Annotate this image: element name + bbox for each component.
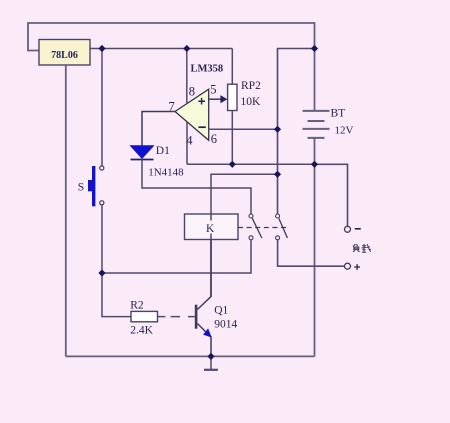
svg-text:D1: D1 xyxy=(156,145,170,157)
dashed linkage line xyxy=(238,227,287,229)
pin 7 wire (output) xyxy=(142,112,175,146)
wire: battery column xyxy=(314,49,316,111)
wire: top supply wire from battery + to 78L06 input xyxy=(28,23,315,51)
svg-text:78L06: 78L06 xyxy=(51,50,78,61)
wire: R2 to Q1 base (with gaps) xyxy=(158,316,195,318)
node: pin6/contact column xyxy=(274,126,281,133)
label plus input xyxy=(198,98,205,105)
node: line A / battery column xyxy=(311,161,318,168)
resistor R2 xyxy=(131,311,158,321)
node: line B / contact column xyxy=(274,171,281,178)
svg-text:2.4K: 2.4K xyxy=(130,324,153,336)
label plus sign xyxy=(354,264,360,270)
label minus input xyxy=(198,126,205,128)
node: rail/pin8 xyxy=(183,45,190,52)
svg-text:RP2: RP2 xyxy=(241,80,261,92)
svg-text:S: S xyxy=(78,182,84,194)
wire: line A (op-amp pin4 / RP2 bottom / battery mid rail to minus branch) xyxy=(187,163,348,165)
svg-text:7: 7 xyxy=(169,99,175,113)
label minus sign xyxy=(355,228,361,230)
label K xyxy=(204,221,216,235)
ground symbol xyxy=(204,356,218,369)
op-amp U1 LM358 xyxy=(175,89,209,140)
label load (Chinese fu-zai) xyxy=(353,244,371,252)
wire: D1 cathode down and right to left relay contact top xyxy=(142,160,251,214)
node: line A / RP2 bottom xyxy=(229,161,236,168)
wire: plus terminal to right relay contact bottom xyxy=(278,240,345,266)
pin 5 wire to RP2 wiper xyxy=(209,98,221,100)
svg-text:6: 6 xyxy=(211,132,217,146)
pin 8 xyxy=(186,49,188,105)
svg-text:5: 5 xyxy=(210,83,216,97)
svg-text:9014: 9014 xyxy=(214,318,237,330)
wire: 78L06 ground pin left border down to ground rail xyxy=(65,65,67,356)
terminal minus xyxy=(345,226,351,232)
relay contact 1 (left) xyxy=(249,214,262,240)
wire: switch bottom to junction xyxy=(101,205,103,273)
battery BT xyxy=(303,111,330,138)
node: rail/switch xyxy=(98,45,105,52)
transistor Q1 xyxy=(195,240,212,357)
wire: battery minus down to ground rail corner xyxy=(314,138,316,357)
pin 4 xyxy=(186,122,188,164)
potentiometer RP2 xyxy=(220,49,237,165)
terminal plus xyxy=(345,263,351,269)
svg-text:LM358: LM358 xyxy=(191,64,224,75)
svg-text:4: 4 xyxy=(186,134,193,148)
node: emitter/ground rail xyxy=(207,353,214,360)
wire: branch to minus terminal xyxy=(315,164,348,226)
wire: junction down to R2 xyxy=(102,273,131,317)
wire: +6V rail from 78L06 output to RP2 top xyxy=(90,48,232,50)
svg-text:Q1: Q1 xyxy=(214,305,228,317)
svg-text:12V: 12V xyxy=(335,125,354,137)
svg-text:BT: BT xyxy=(331,108,346,120)
wire: rail segment from battery junction down to relay contact column xyxy=(278,49,315,215)
wire: left contact bottom to switch column xyxy=(102,240,251,273)
node: switch/R2/contact-return xyxy=(98,269,105,276)
svg-text:10K: 10K xyxy=(241,96,262,108)
wire: line B relay coil through K down to Q1 collector xyxy=(211,174,278,296)
svg-text:1N4148: 1N4148 xyxy=(148,167,184,179)
regulator U 78L06 xyxy=(39,40,90,66)
switch S xyxy=(88,166,104,206)
relay contact 2 (right) xyxy=(276,214,288,240)
diode D1 xyxy=(131,146,154,160)
relay K xyxy=(185,214,239,240)
svg-text:R2: R2 xyxy=(130,300,144,312)
wire: ground rail xyxy=(66,355,315,357)
svg-text:8: 8 xyxy=(189,84,195,98)
wire: switch top from rail xyxy=(101,49,103,166)
node: battery top xyxy=(311,45,318,52)
pin 6 wire xyxy=(209,128,278,130)
svg-text:K: K xyxy=(206,223,215,235)
